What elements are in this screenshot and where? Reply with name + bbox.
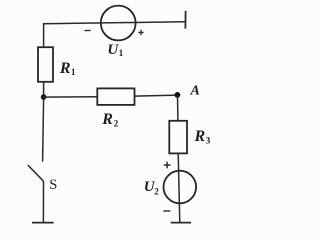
label U1: [107, 42, 123, 58]
voltage source U2: [164, 171, 197, 204]
wire R3 to U2 and through to bottom: [178, 153, 180, 222]
resistor R1: [38, 47, 53, 82]
label R2: [101, 111, 119, 128]
wire R1 bottom to junction: [43, 82, 45, 97]
terminal bottom-right: [171, 222, 191, 224]
terminal top-right: [184, 11, 186, 29]
wire junction to R2: [44, 96, 98, 98]
wire top horizontal: [44, 22, 186, 24]
voltage source U1: [101, 6, 136, 41]
polarity + of U1: [138, 30, 143, 35]
svg-text:2: 2: [114, 119, 119, 129]
wire junction down to switch: [43, 97, 44, 161]
svg-text:R: R: [59, 60, 71, 77]
svg-text:R: R: [101, 111, 113, 128]
svg-text:3: 3: [206, 135, 211, 145]
polarity - of U1: [85, 29, 91, 31]
wire switch to bottom terminal: [42, 181, 44, 223]
node A dot: [175, 92, 181, 98]
label U2: [144, 179, 159, 196]
wire left vertical (top corner to R1): [43, 23, 45, 47]
node junction dot: [41, 94, 47, 100]
svg-text:U: U: [107, 42, 119, 58]
terminal bottom-left: [32, 222, 54, 224]
svg-text:A: A: [190, 84, 200, 99]
svg-text:1: 1: [119, 48, 124, 58]
resistor R3: [169, 121, 187, 154]
resistor R2: [97, 88, 134, 105]
svg-text:R: R: [194, 128, 206, 145]
switch S blade: [28, 165, 44, 181]
wire node A to R3: [177, 95, 179, 121]
wire R2 to node A: [135, 95, 178, 96]
label R3: [194, 128, 211, 145]
svg-text:S: S: [49, 177, 57, 193]
svg-text:2: 2: [154, 186, 159, 196]
label R1: [59, 60, 76, 77]
polarity - of U2: [163, 210, 170, 212]
polarity + of U2: [164, 162, 171, 169]
svg-text:1: 1: [71, 67, 76, 77]
